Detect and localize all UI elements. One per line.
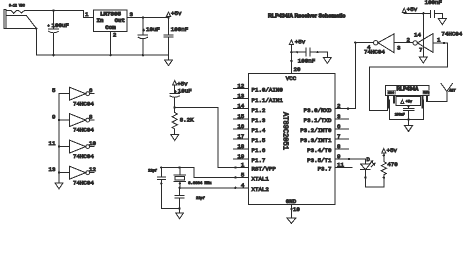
svg-text:20: 20 — [294, 66, 301, 73]
svg-text:+5v: +5v — [407, 6, 418, 13]
capacitor C2 10uF — [138, 16, 160, 56]
svg-text:13: 13 — [49, 166, 56, 173]
pin 12 P1.0/AIN0 — [234, 83, 284, 94]
ground (crystal) — [176, 213, 184, 219]
svg-text:+5v: +5v — [177, 81, 188, 88]
svg-text:74HC04: 74HC04 — [73, 100, 94, 107]
svg-text:100uF: 100uF — [52, 22, 70, 29]
wire regulator output to +5v — [133, 17, 169, 19]
pin 10 — [89, 140, 96, 147]
crystal Y1 3.6864 MHz — [174, 168, 212, 188]
pin 3 P3.1/TXD — [304, 113, 349, 124]
svg-text:P1.3: P1.3 — [252, 117, 266, 124]
resistor R1 8.2K — [172, 106, 194, 134]
svg-text:P3.1/TXD: P3.1/TXD — [304, 117, 332, 124]
capacitor C7 100nF (VCC decoupling) — [291, 48, 327, 64]
svg-text:8: 8 — [89, 114, 93, 121]
pin 5 — [52, 87, 70, 94]
pin 9 — [52, 114, 70, 121]
svg-text:P3.3/INT1: P3.3/INT1 — [300, 137, 332, 144]
pin 2 (regulator common) — [110, 32, 117, 57]
svg-text:XTAL1: XTAL1 — [252, 176, 270, 183]
svg-text:470: 470 — [387, 161, 398, 168]
svg-text:74HC04: 74HC04 — [441, 31, 462, 38]
pin 20 VCC — [290, 44, 301, 73]
module pin (data) — [387, 95, 388, 110]
resistor R2 470 — [381, 154, 398, 175]
pin 11 P3.7 — [318, 162, 352, 173]
svg-text:18: 18 — [237, 143, 244, 150]
svg-text:3: 3 — [337, 113, 341, 120]
pin 4 XTAL2 — [241, 182, 270, 193]
inverter U3B 74HC04 — [70, 114, 95, 134]
svg-text:1: 1 — [85, 11, 89, 18]
svg-text:74HC04: 74HC04 — [73, 127, 94, 134]
svg-text:8.2K: 8.2K — [180, 117, 194, 124]
pin 2 P3.0/RXD — [304, 103, 349, 114]
LED D1 — [361, 156, 375, 170]
pin 3 (regulator output) — [127, 11, 134, 18]
svg-text:+5v: +5v — [295, 39, 306, 46]
svg-text:100nF: 100nF — [425, 0, 443, 6]
pin 7 P3.3/INT1 — [300, 133, 348, 144]
svg-text:6: 6 — [337, 123, 341, 130]
capacitor C3 100nF — [164, 16, 189, 55]
ground rail wire — [36, 54, 168, 56]
pin 16 P1.4 — [234, 123, 266, 134]
svg-text:RLP434/A Receiver Schematic: RLP434/A Receiver Schematic — [268, 14, 345, 20]
pin 1 RST/VPP — [241, 162, 277, 173]
capacitor C5 22pf — [148, 168, 165, 209]
svg-text:+5v: +5v — [387, 147, 398, 154]
ground (inverter decoupling) — [438, 19, 446, 25]
receiver module U4 RLP434A — [386, 86, 430, 96]
+5v supply symbol (VCC) — [289, 39, 305, 46]
svg-text:9: 9 — [52, 114, 56, 121]
power jack J1 9-12 VDC — [4, 4, 36, 29]
pin 19 P1.7 — [234, 153, 266, 164]
svg-text:+5v: +5v — [406, 101, 413, 105]
svg-text:P1.2: P1.2 — [252, 107, 266, 114]
capacitor C8 100nF (inverter decoupling) — [425, 0, 443, 19]
pin 5 XTAL1 — [241, 171, 270, 182]
svg-text:8: 8 — [337, 143, 341, 150]
svg-text:P1.4: P1.4 — [252, 127, 266, 134]
inverter U3C 74HC04 — [70, 140, 95, 160]
wire reset node to RST pin — [175, 108, 249, 169]
svg-text:5678: 5678 — [423, 92, 430, 95]
capacitor C1 100uF — [48, 9, 70, 56]
svg-text:5: 5 — [52, 87, 56, 94]
svg-text:11: 11 — [337, 162, 344, 169]
svg-text:+: + — [143, 30, 145, 34]
svg-text:14: 14 — [237, 103, 244, 110]
pin 8 P3.4/T0 — [307, 143, 348, 154]
svg-text:10uF: 10uF — [146, 26, 160, 33]
svg-text:+: + — [174, 91, 176, 95]
svg-text:12: 12 — [237, 83, 244, 90]
wire crystal ground — [161, 207, 181, 213]
svg-text:11: 11 — [49, 140, 56, 147]
svg-text:P1.0/AIN0: P1.0/AIN0 — [252, 87, 284, 94]
svg-text:12: 12 — [89, 166, 96, 173]
wire XTAL2 net — [178, 187, 248, 189]
svg-text:In: In — [97, 17, 104, 24]
pin 10 GND — [290, 204, 300, 218]
svg-text:6: 6 — [89, 87, 93, 94]
pin 1 — [433, 37, 448, 45]
svg-text:10: 10 — [89, 140, 96, 147]
inverter U3A 74HC04 — [70, 87, 95, 107]
svg-text:4: 4 — [241, 182, 245, 189]
inverter U3F 74HC04 — [413, 31, 463, 53]
wire jack to regulator input — [25, 10, 87, 55]
svg-text:1: 1 — [437, 37, 441, 44]
svg-text:5: 5 — [241, 171, 245, 178]
capacitor C9 100nF (module) — [395, 105, 414, 119]
svg-text:100nF: 100nF — [298, 58, 316, 65]
+5v supply symbol (LED) — [382, 147, 398, 157]
svg-text:2: 2 — [113, 32, 117, 39]
svg-text:10: 10 — [293, 206, 300, 213]
ground (microcontroller) — [287, 218, 296, 223]
svg-text:3.6864 MHz: 3.6864 MHz — [188, 182, 212, 186]
svg-text:3: 3 — [130, 11, 134, 18]
svg-text:1: 1 — [241, 162, 245, 169]
ground (gate input bus) — [55, 183, 63, 189]
svg-text:7: 7 — [337, 133, 341, 140]
svg-text:10uF: 10uF — [178, 88, 192, 95]
svg-text:P1.1/AIN1: P1.1/AIN1 — [252, 97, 284, 104]
svg-text:P1.6: P1.6 — [252, 147, 266, 154]
svg-text:2: 2 — [407, 37, 411, 44]
svg-text:17: 17 — [237, 133, 244, 140]
svg-text:P3.4/T0: P3.4/T0 — [307, 147, 332, 154]
pin 13 P1.1/AIN1 — [234, 93, 284, 104]
capacitor C6 22pf — [175, 188, 205, 209]
wire inverter input to receiver data — [369, 43, 447, 110]
pin 8 — [89, 114, 94, 121]
pin 6 P3.2/INT0 — [300, 123, 348, 134]
svg-text:P1.5: P1.5 — [252, 137, 266, 144]
pin 18 P1.6 — [234, 143, 266, 154]
svg-text:Out: Out — [115, 17, 125, 24]
ground (VCC decoupling) — [323, 52, 331, 63]
module pin (ant) — [426, 95, 427, 101]
svg-text:22pf: 22pf — [148, 168, 157, 173]
svg-text:Com: Com — [105, 24, 116, 31]
ground (inverter pin 7) — [419, 57, 427, 63]
svg-text:13: 13 — [237, 93, 244, 100]
svg-text:P1.7: P1.7 — [252, 157, 266, 164]
svg-text:14: 14 — [414, 32, 421, 39]
wire T1 to LED — [335, 158, 365, 164]
ground (power supply) — [165, 55, 173, 65]
svg-text:P3.7: P3.7 — [318, 166, 332, 173]
svg-text:D: D — [366, 156, 370, 163]
microcontroller U1 AT89C2051 — [249, 73, 336, 205]
wire unused-gate input bus — [58, 94, 60, 183]
svg-text:RLP434A: RLP434A — [397, 87, 419, 93]
pin 13 — [49, 166, 70, 173]
svg-text:P3.0/RXD: P3.0/RXD — [304, 107, 332, 114]
svg-text:100nF: 100nF — [171, 26, 189, 33]
ground (reset circuit) — [171, 135, 179, 141]
svg-text:9-12 VDC: 9-12 VDC — [9, 4, 25, 8]
svg-text:+: + — [48, 25, 50, 29]
pin 15 P1.3 — [234, 113, 266, 124]
wire between inverters — [394, 42, 413, 44]
capacitor C4 10uF (reset) — [170, 85, 192, 108]
+5v supply symbol (regulator output) — [167, 10, 182, 17]
inverter U3D 74HC04 — [70, 166, 95, 186]
ground (module) — [405, 120, 413, 132]
svg-text:74HC04: 74HC04 — [73, 179, 94, 186]
+5v supply symbol (reset circuit) — [173, 81, 188, 88]
wire +5v to inverter pin 14 — [404, 12, 430, 57]
pin 9 P3.5/T1 — [307, 153, 341, 164]
pin 1 (regulator input) — [85, 11, 94, 18]
+5v supply symbol (inverter power) — [402, 6, 418, 13]
svg-text:GND: GND — [286, 198, 297, 205]
svg-text:15: 15 — [237, 113, 244, 120]
pin 14 P1.2 — [234, 103, 266, 114]
wire XTAL1 net — [160, 166, 248, 178]
pin 17 P1.5 — [234, 133, 266, 144]
svg-text:XTAL2: XTAL2 — [252, 186, 270, 193]
pin 12 — [89, 166, 96, 173]
svg-text:100nF: 100nF — [395, 112, 405, 116]
regulator U2 LM7805 — [94, 10, 128, 32]
svg-text:P3.2/INT0: P3.2/INT0 — [300, 127, 332, 134]
pin 11 — [49, 140, 70, 147]
inverter U3E 74HC04 — [364, 34, 394, 56]
svg-text:RST/VPP: RST/VPP — [252, 166, 277, 173]
svg-text:1234: 1234 — [388, 92, 395, 95]
svg-text:19: 19 — [237, 153, 244, 160]
+5v supply symbol (module) — [396, 97, 420, 106]
svg-text:ANT: ANT — [448, 90, 456, 94]
wire module ground loop — [390, 100, 424, 121]
module pin (gnd) — [422, 95, 423, 108]
svg-text:P3.5/T1: P3.5/T1 — [307, 157, 332, 164]
svg-text:4: 4 — [367, 44, 371, 51]
pin 6 — [89, 87, 94, 94]
svg-text:22pf: 22pf — [196, 196, 205, 201]
wire LED to resistor — [364, 170, 385, 187]
antenna ANT — [427, 83, 456, 101]
svg-text:7: 7 — [419, 47, 423, 54]
svg-text:+5v: +5v — [171, 10, 182, 17]
svg-text:VCC: VCC — [286, 75, 297, 82]
wire RXD to inverter output — [335, 42, 374, 110]
module pin (vcc) — [393, 95, 394, 103]
svg-text:3: 3 — [397, 45, 401, 52]
svg-text:74HC04: 74HC04 — [73, 153, 94, 160]
svg-text:16: 16 — [237, 123, 244, 130]
svg-text:AT89C2051: AT89C2051 — [281, 112, 289, 150]
